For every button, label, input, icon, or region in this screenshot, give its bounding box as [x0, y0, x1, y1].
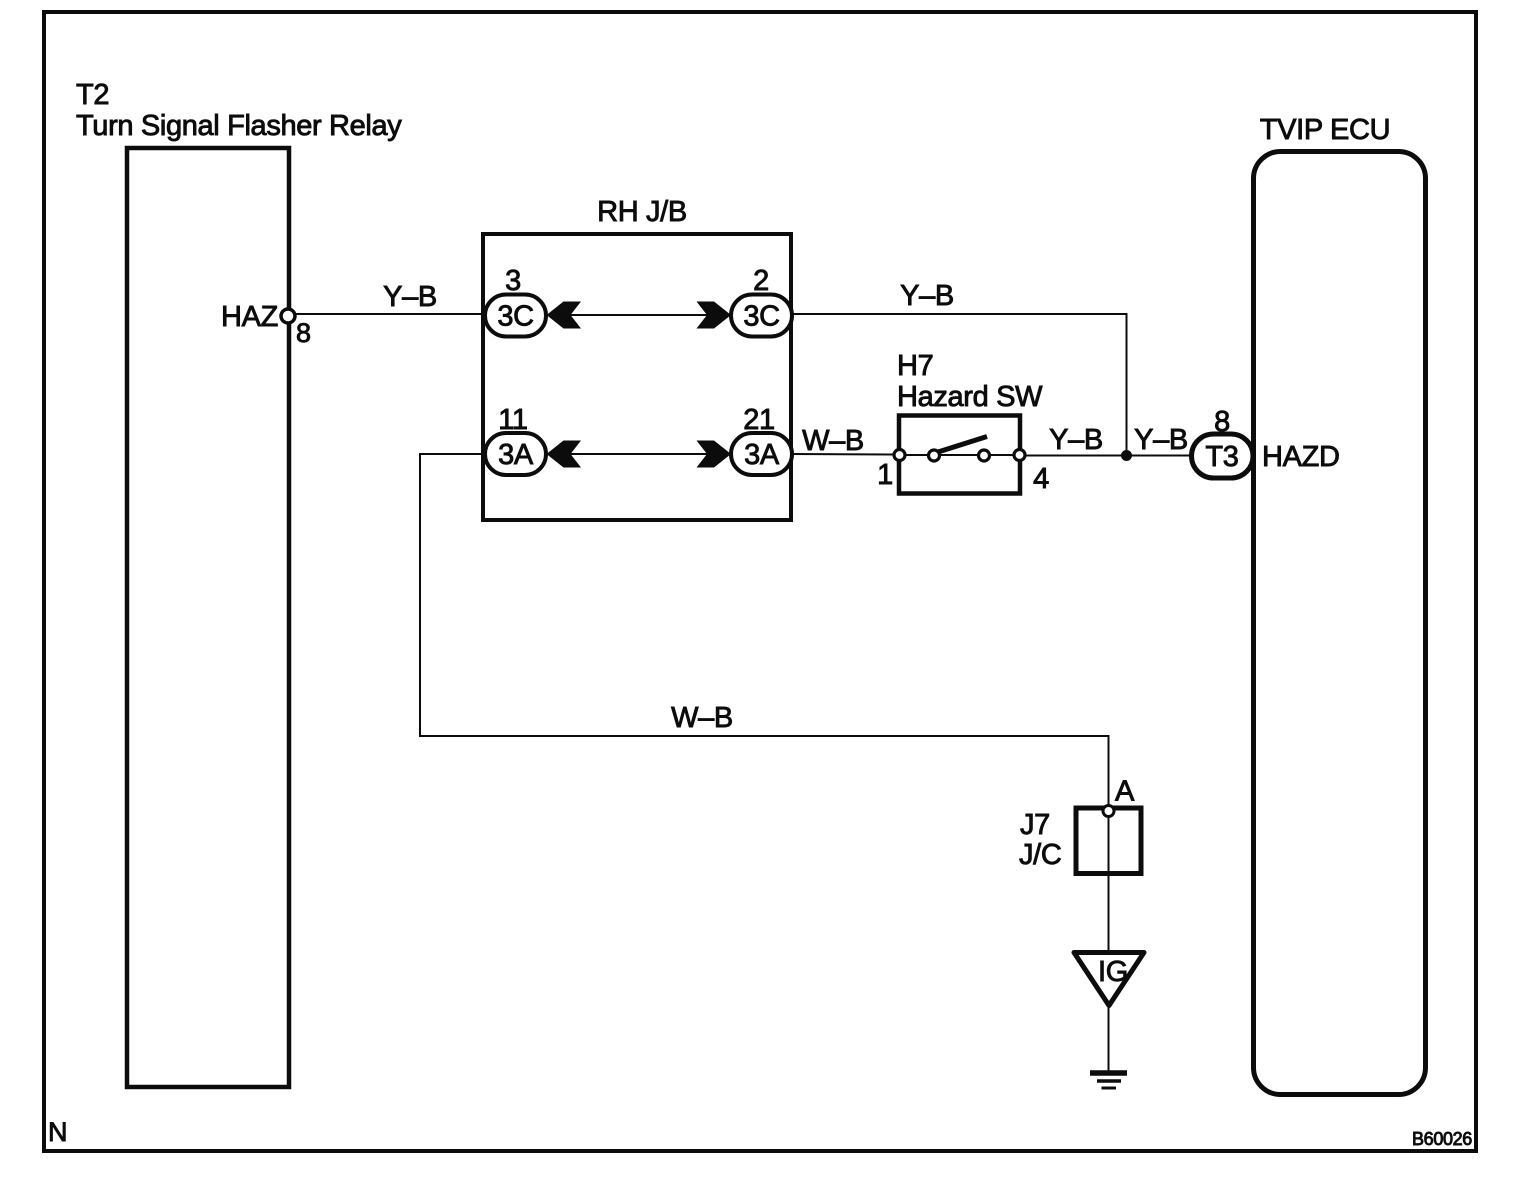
arrow left row2	[547, 441, 582, 468]
svg-text:Y–B: Y–B	[900, 280, 954, 312]
wire row1 inside J/B	[546, 314, 731, 316]
svg-text:3: 3	[505, 265, 521, 297]
svg-text:2: 2	[753, 265, 769, 297]
ground	[1090, 1070, 1127, 1076]
switch terminal pin 1	[894, 450, 905, 461]
switch blade	[938, 437, 987, 453]
svg-text:3A: 3A	[744, 439, 780, 471]
wire IG to ground	[1108, 1007, 1110, 1072]
svg-text:Turn Signal Flasher Relay: Turn Signal Flasher Relay	[76, 110, 402, 142]
switch H7 box	[899, 416, 1020, 494]
svg-text:J7: J7	[1020, 809, 1050, 841]
svg-text:Hazard SW: Hazard SW	[897, 381, 1043, 413]
junction block RH J/B box	[483, 234, 791, 520]
wire switch to junction (Y-B)	[1026, 455, 1127, 457]
connector 3C left	[485, 295, 546, 337]
svg-text:3C: 3C	[743, 301, 779, 333]
relay T2 box	[127, 148, 289, 1087]
svg-text:J/C: J/C	[1019, 839, 1061, 871]
connector 3A right	[731, 433, 792, 475]
junction node	[1121, 450, 1132, 461]
svg-text:Y–B: Y–B	[383, 281, 437, 313]
terminal node A	[1103, 806, 1114, 817]
svg-text:3C: 3C	[497, 301, 533, 333]
svg-text:HAZ: HAZ	[221, 301, 278, 333]
svg-text:HAZD: HAZD	[1262, 441, 1340, 473]
svg-text:W–B: W–B	[802, 425, 864, 457]
svg-text:3A: 3A	[498, 439, 534, 471]
svg-text:B60026: B60026	[1412, 1129, 1472, 1149]
svg-text:IG: IG	[1098, 956, 1128, 988]
wire through switch	[899, 454, 1020, 456]
connector 3C right	[731, 295, 792, 337]
svg-text:A: A	[1115, 776, 1135, 808]
svg-text:RH J/B: RH J/B	[597, 196, 687, 228]
connector T3	[1192, 434, 1254, 478]
switch contact right	[979, 450, 990, 461]
switch terminal pin 4	[1014, 450, 1025, 461]
wire 3C pin2 to junction (Y-B)	[792, 314, 1127, 456]
svg-text:TVIP ECU: TVIP ECU	[1260, 114, 1390, 146]
svg-text:1: 1	[877, 459, 893, 491]
svg-text:T2: T2	[76, 79, 109, 111]
power source IG triangle	[1074, 953, 1144, 1006]
switch contact left	[929, 450, 940, 461]
wire through J/C to IG	[1108, 808, 1110, 950]
arrow left row1	[547, 302, 582, 329]
svg-text:4: 4	[1033, 463, 1049, 495]
arrow right row2	[697, 441, 732, 468]
wire junction to T3 (Y-B)	[1127, 455, 1193, 457]
svg-text:N: N	[48, 1117, 67, 1147]
svg-text:T3: T3	[1205, 441, 1238, 473]
junction connector J7 J/C box	[1076, 808, 1141, 874]
wire row2 inside J/B	[546, 453, 731, 455]
svg-text:8: 8	[296, 318, 311, 348]
ECU TVIP box	[1254, 152, 1426, 1095]
arrow right row1	[697, 302, 732, 329]
wire 3A pin11 to J/C node A (W-B)	[420, 454, 1109, 806]
svg-text:H7: H7	[897, 350, 933, 382]
terminal HAZ	[281, 309, 295, 323]
svg-text:Y–B: Y–B	[1049, 424, 1103, 456]
svg-text:W–B: W–B	[671, 702, 733, 734]
wire HAZ to RH J/B (Y-B)	[294, 313, 484, 315]
svg-text:Y–B: Y–B	[1134, 424, 1188, 456]
wire 3A pin21 to switch (W-B)	[792, 453, 899, 456]
connector 3A left	[485, 433, 546, 475]
